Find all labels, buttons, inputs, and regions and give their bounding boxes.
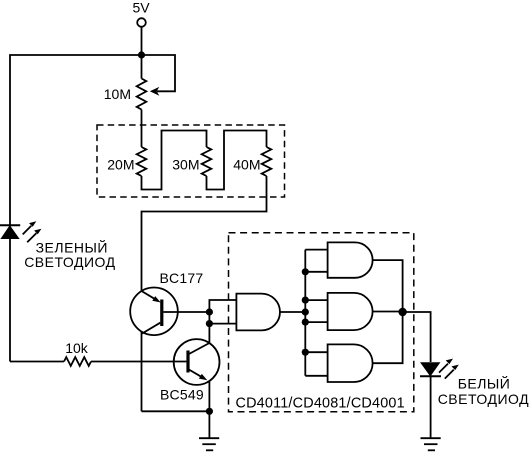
wire node C to ground 1	[208, 411, 210, 438]
svg-text:5V: 5V	[132, 0, 150, 16]
wire 20M bottom to 30M top	[142, 131, 207, 190]
white LED D2 cathode bar	[420, 375, 441, 377]
svg-text:БЕЛЫЙ: БЕЛЫЙ	[458, 375, 511, 392]
transistor Q1 collector diagonal	[142, 323, 161, 334]
wire Q1 base to node A	[163, 311, 209, 313]
power terminal 5V	[137, 18, 146, 27]
node A (Q1 base / gate1 top input)	[206, 308, 213, 315]
node bus 3 (gate U1 output)	[302, 308, 309, 315]
wire white LED to ground 2	[430, 376, 432, 438]
wire gate U3 output	[373, 311, 403, 313]
node bus 1 (gate U2 input 2)	[302, 268, 309, 275]
wire bus to gate U4 input 1	[305, 351, 327, 353]
svg-text:10k: 10k	[65, 340, 89, 356]
node B (Q2 collector / gate1 bottom input)	[206, 320, 213, 327]
transistor Q1 emitter diagonal	[142, 291, 157, 300]
node D (gate outputs tie)	[398, 308, 406, 316]
transistor Q2 emitter arrowhead (NPN)	[199, 374, 207, 380]
svg-text:40M: 40M	[233, 157, 260, 173]
resistor 10k	[64, 357, 91, 366]
wire junction to left rail	[10, 55, 142, 362]
transistor Q2 base bar	[186, 351, 189, 373]
wire node B to gate1 input 2	[209, 323, 236, 325]
resistor 20M	[137, 147, 147, 176]
gate U1 (input AND)	[236, 294, 280, 331]
svg-text:BC549: BC549	[160, 386, 204, 402]
wire Q2 emitter down to node C	[208, 381, 210, 411]
wire bus bottom to gate U4 input 2	[305, 375, 327, 377]
ground 2	[421, 438, 441, 450]
wire gate U2 output	[373, 260, 403, 312]
svg-text:30M: 30M	[172, 157, 199, 173]
transistor Q1 base bar	[160, 300, 163, 327]
wire bus to gate U3 input 2	[305, 321, 327, 323]
wire 5V terminal to junction	[141, 27, 143, 79]
wire 10k to Q2 base	[91, 361, 186, 363]
wire potentiometer to 20M	[141, 110, 143, 148]
dashed box resistor network	[97, 125, 285, 197]
node bus 5 (gate U4 input 1)	[302, 349, 309, 356]
resistor 40M	[262, 147, 272, 176]
green LED D1 cathode bar	[0, 224, 20, 226]
wire node A to gate1 input 1	[209, 300, 236, 312]
transistor Q2 emitter diagonal	[188, 369, 202, 377]
green LED light arrow 2	[27, 233, 36, 242]
wiper arrowhead of potentiometer	[150, 87, 160, 96]
dashed box logic gates CD4011/CD4081/CD4001	[229, 233, 414, 412]
gate U2 (top AND)	[328, 242, 373, 277]
wire 30M bottom to 40M top	[207, 131, 267, 190]
wire left rail to 10k	[10, 361, 64, 363]
wire gate U4 output	[373, 312, 403, 363]
potentiometer 10M	[137, 79, 147, 110]
wire 40M bottom to Q1 emitter	[142, 176, 267, 291]
svg-text:CD4011/CD4081/CD4001: CD4011/CD4081/CD4001	[236, 395, 405, 411]
white LED light arrow 1	[439, 364, 448, 373]
white LED D2 triangle	[422, 363, 440, 375]
wire Q1 collector down	[141, 332, 143, 412]
node bus 2 (gate U3 input 1)	[302, 297, 309, 304]
wire bus to gate U3 input 1	[305, 299, 327, 301]
gate U3 (middle AND)	[328, 293, 373, 330]
svg-text:BC177: BC177	[160, 270, 204, 286]
wire node D to white LED	[403, 312, 431, 362]
wire bus top to gate U2 input 1	[305, 249, 327, 251]
green LED D1 triangle	[2, 226, 18, 238]
node bus 4 (gate U3 input 2)	[302, 319, 309, 326]
svg-text:20M: 20M	[107, 157, 134, 173]
svg-text:СВЕТОДИОД: СВЕТОДИОД	[24, 254, 115, 270]
bus vertical wire	[304, 250, 306, 376]
ground 1	[199, 438, 219, 450]
transistor Q2 BC549 circle	[174, 339, 220, 385]
transistor Q2 collector diagonal	[188, 343, 209, 355]
wire Q2 collector up to node B	[208, 324, 210, 343]
green LED light arrow 1	[23, 226, 32, 235]
white LED light arrow 2	[445, 370, 454, 379]
resistor 30M	[202, 147, 212, 176]
transistor Q1 emitter arrowhead (PNP)	[152, 296, 160, 302]
wire gate U1 output to bus	[280, 311, 305, 313]
node junction at 5V rail	[138, 51, 145, 58]
node C (emitter / ground rail)	[206, 408, 213, 415]
svg-text:10M: 10M	[104, 86, 131, 102]
gate U4 (bottom AND)	[328, 344, 373, 382]
svg-text:СВЕТОДИОД: СВЕТОДИОД	[438, 391, 529, 407]
wire node A to node B	[208, 312, 210, 324]
wire wiper loop of potentiometer	[142, 55, 176, 91]
transistor Q1 BC177 circle	[130, 288, 178, 336]
wire Q1 collector to node C	[142, 410, 210, 412]
wire bus to gate U2 input 2	[305, 271, 327, 273]
